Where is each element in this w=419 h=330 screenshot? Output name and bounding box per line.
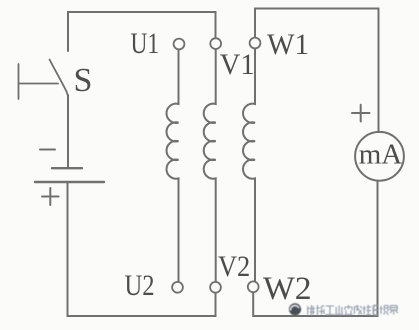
svg-text:mA: mA [359, 139, 403, 171]
svg-text:U2: U2 [125, 269, 155, 302]
svg-text:S: S [74, 62, 93, 99]
svg-text:V1: V1 [220, 48, 255, 81]
svg-text:U1: U1 [131, 26, 160, 59]
svg-text:W2: W2 [263, 270, 312, 307]
svg-text:V2: V2 [218, 251, 250, 284]
svg-text:W1: W1 [267, 29, 309, 61]
